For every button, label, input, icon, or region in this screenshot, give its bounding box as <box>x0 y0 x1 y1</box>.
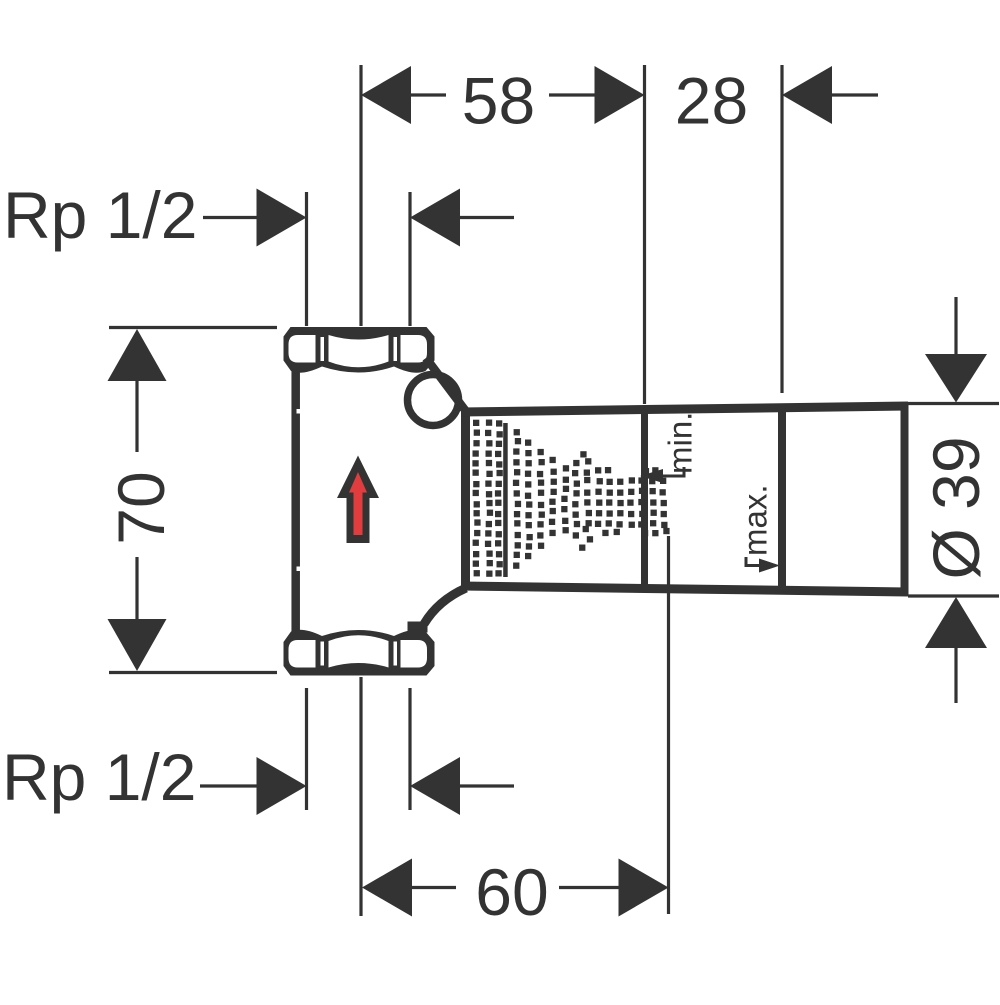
svg-text:58: 58 <box>462 64 535 138</box>
dimension 70: up arrow <box>108 329 167 381</box>
horizontal section top edge <box>461 406 908 412</box>
svg-text:min.: min. <box>662 412 699 474</box>
extension line: diameter bottom <box>908 594 999 597</box>
tube left edge <box>291 369 300 633</box>
extension line: 70 dim top <box>109 326 277 329</box>
label max. (rotated) <box>737 484 774 556</box>
dimension 60: left tail <box>412 886 456 889</box>
tube left edge notch upper <box>297 409 303 414</box>
arrowhead max <box>759 559 780 573</box>
dimension 70: down arrow <box>108 619 167 671</box>
max plane line <box>778 407 786 590</box>
svg-text:70: 70 <box>104 471 178 544</box>
Rp 1/2 bottom: right tail <box>460 784 514 787</box>
dimension 28: outside arrow <box>782 66 832 124</box>
dimension diameter 39: up arrow <box>925 597 987 648</box>
extension line: diameter top <box>906 402 999 405</box>
Rp 1/2 top: left-pointing arrow <box>410 189 460 247</box>
Rp 1/2 bottom: right-pointing arrow <box>257 757 307 815</box>
extension line: 70 dim bottom <box>109 671 277 674</box>
dimension 28: outside tail <box>832 93 878 96</box>
red flow arrow outline <box>337 456 379 544</box>
extension line: min plane x=644.5 <box>643 65 646 404</box>
dimension 60: right tail <box>559 886 619 889</box>
hex nut top <box>284 327 435 373</box>
svg-text:Rp 1/2: Rp 1/2 <box>2 740 196 814</box>
extension line: insert end x=668.5 <box>667 536 670 914</box>
dimension 70: value label (rotated) <box>104 471 178 544</box>
stippled insert: solid divider line <box>503 423 508 577</box>
svg-text:Ø 39: Ø 39 <box>919 436 993 579</box>
svg-text:Rp 1/2: Rp 1/2 <box>3 178 197 252</box>
horizontal section bottom edge <box>461 586 908 592</box>
label min. (rotated) <box>662 412 699 474</box>
dimension diameter 39: up arrow tail <box>954 648 957 703</box>
dimension 70: upper tail <box>135 381 138 452</box>
dimension diameter 39: down arrow tail <box>954 297 957 354</box>
Rp 1/2 top: right-pointing arrow <box>257 189 307 247</box>
red flow arrow <box>349 472 367 535</box>
svg-text:60: 60 <box>475 855 548 929</box>
neck fillet circle <box>408 375 459 426</box>
extension line: thread right x=410 (bottom) <box>408 688 411 810</box>
arrowhead min <box>640 469 663 483</box>
dimension diameter 39: down arrow <box>925 354 987 403</box>
Rp 1/2 top: right tail <box>460 216 514 219</box>
min plane line <box>641 409 648 589</box>
Rp 1/2 bottom: left-pointing arrow <box>410 757 460 815</box>
svg-text:max.: max. <box>737 484 774 556</box>
leader min <box>661 467 684 476</box>
dimension 58: left arrow <box>361 66 411 124</box>
extension line: tube center axis (top run) <box>359 65 362 326</box>
leader Rp 1/2 top <box>203 216 258 219</box>
horizontal section left edge <box>461 408 470 591</box>
leader max <box>746 557 760 566</box>
dimension 60: left arrow <box>362 859 412 917</box>
stippled insert dots <box>472 420 669 577</box>
bottom step <box>408 622 428 633</box>
dimension 58: right arrow <box>595 66 645 124</box>
dimension 70: lower tail <box>135 557 138 619</box>
tube left edge notch lower <box>297 567 303 572</box>
dimension 58: right tail <box>549 93 595 96</box>
extension line: thread left x=306.5 (bottom) <box>305 688 308 810</box>
svg-text:28: 28 <box>675 64 748 138</box>
hex nut bottom (mirror) <box>284 630 435 676</box>
bottom fillet curve <box>424 588 466 624</box>
extension line: max plane x=782 <box>780 65 783 393</box>
dimension diameter 39: value label (rotated) <box>919 436 993 579</box>
right end cap <box>901 402 909 596</box>
dimension 60: right arrow <box>619 859 669 917</box>
extension line: thread left x=306.5 (top) <box>305 192 308 326</box>
neck diagonal <box>426 358 468 414</box>
dimension 58: left tail <box>411 93 446 96</box>
extension line: thread right x=410 (top) <box>408 192 411 326</box>
extension line: tube center axis (bottom run) <box>359 677 362 916</box>
leader Rp 1/2 bottom <box>200 784 258 787</box>
